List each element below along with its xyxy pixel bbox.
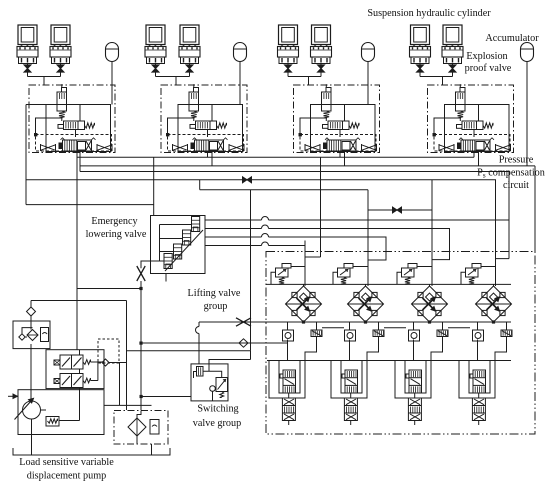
suspension valve group box 2 <box>161 85 247 153</box>
bridge check arrows <box>297 297 310 311</box>
wire <box>473 151 475 153</box>
wire <box>367 62 369 86</box>
filter diamond <box>27 330 38 341</box>
wire <box>194 372 197 379</box>
inner block 4 <box>445 105 510 152</box>
suspension cylinder 2a <box>146 25 165 45</box>
wire manifold to valve group 3 <box>288 76 321 78</box>
bridge ports <box>418 292 423 297</box>
wire emergency valve to pump line <box>141 261 160 268</box>
pump control valve 1 <box>60 355 83 369</box>
return filter bypass <box>150 420 159 435</box>
pressure compensator pilot valve <box>472 264 481 269</box>
directional valve lower <box>282 398 295 421</box>
wire manifold to valve group 1 <box>28 76 61 78</box>
check valve bridge diamond <box>476 286 512 322</box>
spool right vent 2 <box>229 144 244 151</box>
wire <box>434 118 461 135</box>
shut-off valve on outlet rail <box>236 318 251 326</box>
wire emergency pilot line W3 <box>205 229 450 260</box>
spring of proportional valve 4 <box>483 123 493 128</box>
explosion proof valve 4a <box>410 47 431 58</box>
wire emergency pilot line W4 <box>205 219 509 221</box>
check valve bridge diamond <box>348 286 384 322</box>
spring of proportional valve 2 <box>217 123 227 128</box>
pump control valve pilot tab 2 <box>54 379 60 384</box>
wire emergency pilot line W1 <box>205 245 305 247</box>
main spool dashed enclosure 1 <box>36 135 112 152</box>
wire control valve internals <box>79 350 81 421</box>
emergency cartridge valve 4 <box>164 254 172 269</box>
wire <box>300 118 327 135</box>
shut-off valve under cylinder 4a <box>417 65 424 69</box>
wire pilot riser <box>126 301 128 411</box>
wire <box>60 64 62 65</box>
explosion proof valve 1a <box>17 47 38 58</box>
main spool dashed enclosure 2 <box>168 135 244 152</box>
pilot relief valve 4 <box>456 92 466 111</box>
wire compensator pilot feed <box>481 266 496 268</box>
explosion proof valve 4b <box>442 47 463 58</box>
bridge ports <box>292 292 297 297</box>
shut-off valve under cylinder 1a <box>24 65 31 69</box>
wire box1 left port <box>26 104 46 106</box>
pilot relief valve 2 <box>189 92 199 111</box>
explosion proof valve 3a <box>278 47 299 58</box>
bridge check arrows <box>423 297 436 311</box>
wire compensator left drain <box>461 272 466 284</box>
wire switching valve feed <box>198 322 200 364</box>
wire <box>36 118 63 135</box>
suspension valve group box 4 <box>428 85 514 153</box>
wire col1 feed <box>305 157 321 286</box>
svg-text:Switching: Switching <box>197 404 238 415</box>
wire emergency pilot line W2 <box>205 237 386 260</box>
pump control valve 2 <box>60 374 83 388</box>
main spool 4 <box>461 140 490 151</box>
wire right riser to lifting box <box>534 166 536 252</box>
wire <box>75 130 77 138</box>
wire bus line L2 <box>80 165 535 167</box>
suspension cylinder 3a <box>279 25 298 45</box>
directional valve lower <box>344 398 357 421</box>
wire accumulator stem inside box <box>111 85 113 105</box>
wire box drops to bus <box>207 153 209 158</box>
emergency cartridge valve 1 <box>192 217 200 232</box>
lifting valve spool <box>283 370 296 393</box>
svg-text:Accumulator: Accumulator <box>485 33 539 44</box>
shut-off valve on pump line <box>137 266 145 281</box>
check valve on bypass <box>239 339 248 347</box>
svg-text:displacement pump: displacement pump <box>27 471 107 482</box>
spool frame <box>459 361 495 399</box>
main spool 3 <box>327 140 356 151</box>
pressure compensator pilot valve <box>408 264 417 269</box>
suspension cylinder 1a <box>18 25 37 45</box>
bridge ports <box>482 292 487 297</box>
pump control arrow <box>8 395 18 397</box>
spring of proportional valve 1 <box>85 123 95 128</box>
wire manifold to valve group 4 <box>420 76 453 78</box>
spool frame <box>395 361 431 399</box>
port valve B <box>437 330 448 337</box>
main spool dashed enclosure 3 <box>300 135 376 152</box>
spool right vent 3 <box>362 144 377 151</box>
filter unit box <box>13 321 50 349</box>
suspension cylinder 1b <box>51 25 70 45</box>
switch valve spring <box>220 392 224 398</box>
main spool 2 <box>195 140 224 151</box>
lifting valve group enclosure <box>266 252 535 435</box>
suspension cylinder 3b <box>312 25 331 45</box>
wire manifold to valve group 2 <box>156 76 190 78</box>
shut-off valve under cylinder 3a <box>285 65 292 69</box>
suspension valve group box 1 <box>29 85 115 153</box>
check valve on cross link <box>393 207 398 213</box>
filter bypass element <box>41 328 49 342</box>
wire <box>350 393 352 398</box>
accumulator 4 <box>521 43 534 62</box>
accumulator 1 <box>106 43 119 62</box>
accumulator 2 <box>234 43 247 62</box>
wire <box>339 151 341 153</box>
svg-text:Pressure: Pressure <box>499 155 534 166</box>
wire emergency internal bus <box>160 225 192 262</box>
port valve B <box>501 330 512 337</box>
compensator spring <box>341 277 346 284</box>
switching valve group box <box>191 364 228 401</box>
pressure compensator pilot valve <box>282 264 291 269</box>
wire <box>288 393 290 398</box>
wire <box>429 284 431 286</box>
pilot relief valve 3 <box>322 92 332 111</box>
wire <box>287 322 289 330</box>
wire <box>419 64 421 65</box>
main spool dashed enclosure 4 <box>434 135 510 152</box>
port valve A <box>283 330 294 341</box>
wire bus line L1 <box>77 156 474 158</box>
port valve A <box>409 330 420 341</box>
wire col4 feed <box>495 180 497 286</box>
wire <box>207 151 209 153</box>
wire compensator left drain <box>271 272 276 284</box>
wire <box>365 284 367 286</box>
wire switch drain <box>127 350 251 352</box>
pilot relief valve 1 <box>57 92 67 111</box>
shut-off valve under cylinder 3b <box>318 65 325 69</box>
wire compensator pilot feed <box>291 266 305 268</box>
wire riser L3 branch <box>496 172 510 259</box>
bridge check arrows <box>487 297 500 311</box>
wire <box>155 64 157 65</box>
directional valve lower <box>408 398 421 421</box>
port valve B <box>311 330 322 337</box>
compensator spring <box>469 277 474 284</box>
wire to pilot riser <box>109 362 127 364</box>
wire <box>168 118 195 135</box>
port valve B <box>373 330 384 337</box>
wire left vertical <box>25 105 27 205</box>
emergency cartridge valve 3 <box>174 244 182 259</box>
variable displacement pump <box>23 401 41 419</box>
switch pilot element <box>197 367 204 377</box>
bridge check arrows <box>359 297 372 311</box>
return filter diamond <box>128 418 146 436</box>
shut-off valve under cylinder 2a <box>152 65 159 69</box>
wire bus line L6 <box>26 204 154 206</box>
wire accumulator stem inside box <box>367 85 369 105</box>
filter check diamond small <box>19 334 25 340</box>
spool frame <box>269 361 305 399</box>
svg-text:Ps compensation: Ps compensation <box>477 168 545 180</box>
pump arrow <box>15 398 34 419</box>
wire <box>207 130 209 138</box>
emergency valve slope line <box>165 230 203 271</box>
compensator spring <box>405 277 410 284</box>
inner block 2 <box>178 105 243 152</box>
wire <box>526 62 528 166</box>
wire <box>320 64 322 65</box>
check valve bridge diamond <box>412 286 448 322</box>
wire pump drain to bracket <box>31 435 33 456</box>
wire pump column <box>30 301 32 402</box>
spool left vent 3 <box>305 144 320 151</box>
wire pilot drain <box>104 363 152 405</box>
wire <box>287 64 289 65</box>
inner block 1 <box>46 105 111 152</box>
emergency lowering valve box <box>151 216 206 274</box>
wire <box>239 62 241 86</box>
svg-text:proof valve: proof valve <box>465 63 512 74</box>
accumulator 3 <box>362 43 375 62</box>
return filter enclosure <box>114 411 168 445</box>
shut-off valve under cylinder 2b <box>186 65 193 69</box>
spool frame <box>331 361 367 399</box>
spring of relief valve 2 <box>191 111 197 118</box>
spool left vent 2 <box>173 144 188 151</box>
proportional valve 4 <box>462 121 483 130</box>
spring of relief valve 1 <box>59 111 65 118</box>
compensator spring <box>279 277 284 284</box>
wire emergency drain stub <box>165 274 167 282</box>
wire <box>413 322 415 330</box>
pump control valve pilot tab 1 <box>54 360 60 365</box>
wire feed to emergency valve <box>153 157 155 215</box>
emergency cartridge valve 2 <box>183 230 191 245</box>
explosion proof valve 1b <box>50 47 71 58</box>
wire <box>27 64 29 65</box>
explosion proof valve 3b <box>311 47 332 58</box>
svg-text:group: group <box>204 301 228 312</box>
svg-text:circuit: circuit <box>503 180 529 191</box>
wire pump pilot line <box>31 300 127 302</box>
port valve A <box>473 330 484 341</box>
switch pilot ball <box>210 386 216 392</box>
wire col2 feed <box>367 190 369 286</box>
pump enclosure <box>18 390 104 435</box>
pump control valve box <box>46 350 104 389</box>
wire <box>75 151 77 153</box>
wire <box>452 64 454 65</box>
wire outlet rail <box>199 321 511 323</box>
svg-text:Explosion: Explosion <box>466 51 507 62</box>
proportional valve 3 <box>328 121 349 130</box>
wire <box>477 322 479 330</box>
wire <box>303 284 305 286</box>
suspension cylinder 4b <box>443 25 462 45</box>
pressure compensator pilot valve <box>344 264 353 269</box>
pump stroke actuator <box>46 417 59 427</box>
check valve on L4 <box>243 177 248 183</box>
wire <box>349 322 351 330</box>
wire bus line L5 <box>200 189 368 191</box>
wire pump connections <box>41 409 47 411</box>
svg-text:Lifting valve: Lifting valve <box>188 288 241 299</box>
wire return line to bracket <box>151 444 153 455</box>
proportional valve 2 <box>196 121 217 130</box>
suspension cylinder 2b <box>180 25 199 45</box>
suspension cylinder 4a <box>411 25 430 45</box>
pump control valve spring 1 <box>83 360 91 365</box>
spring of proportional valve 3 <box>349 123 359 128</box>
pilot dashed enclosure <box>98 339 119 363</box>
wire <box>493 284 495 286</box>
wire <box>212 391 214 401</box>
wire long drop box1 to pump control <box>76 153 78 350</box>
spool right vent 4 <box>496 144 511 151</box>
explosion proof valve 2b <box>179 47 200 58</box>
switch valve <box>216 378 228 392</box>
wire <box>137 411 141 419</box>
directional valve lower <box>472 398 485 421</box>
inner block 3 <box>311 105 376 152</box>
svg-text:Load sensitive variable: Load sensitive variable <box>19 457 114 468</box>
wire bus line L3 <box>80 171 509 173</box>
wire <box>478 393 480 398</box>
wire <box>111 62 113 86</box>
pump control valve spring 2 <box>83 378 91 383</box>
wire switch drain line <box>141 396 191 398</box>
wire accumulator stem inside box <box>239 85 241 105</box>
wire compensator pilot feed <box>417 266 432 268</box>
wire spool rail <box>267 360 511 362</box>
shut-off valve under cylinder 1b <box>57 65 64 69</box>
wire <box>414 393 416 398</box>
wire pilot rail <box>266 283 511 285</box>
wire pump load-sensing line <box>77 288 141 290</box>
wire compensator pilot feed <box>353 266 368 268</box>
svg-text:Emergency: Emergency <box>91 216 138 227</box>
wire pump line down <box>140 281 142 410</box>
spool left vent 4 <box>439 144 454 151</box>
svg-text:valve group: valve group <box>193 418 241 429</box>
port valve A <box>345 330 356 341</box>
spring of relief valve 4 <box>458 111 464 118</box>
wire bypass with check valve <box>141 342 287 344</box>
pump group bracket <box>13 448 170 455</box>
check valve at control outlet <box>102 359 109 366</box>
bridge ports <box>354 292 359 297</box>
wire bus line L4 <box>26 179 496 181</box>
shut-off valve under cylinder 4b <box>449 65 456 69</box>
wire compensator left drain <box>397 272 402 284</box>
check valve above filter <box>27 307 36 316</box>
lifting valve spool <box>473 370 486 393</box>
svg-text:lowering valve: lowering valve <box>86 229 147 240</box>
main spool 1 <box>63 140 92 151</box>
suspension valve group box 3 <box>294 85 380 153</box>
lifting valve spool <box>409 370 422 393</box>
wire cross link with check valve <box>368 209 432 211</box>
wire <box>339 130 341 138</box>
wire <box>473 130 475 138</box>
wire <box>189 64 191 65</box>
lifting valve spool <box>345 370 358 393</box>
spool right vent 1 <box>97 144 112 151</box>
proportional valve 1 <box>64 121 85 130</box>
svg-text:Suspension hydraulic cylinder: Suspension hydraulic cylinder <box>367 8 491 19</box>
wire compensator left drain <box>333 272 338 284</box>
spring of relief valve 3 <box>324 111 330 118</box>
wire filter bypass loop <box>22 328 33 349</box>
spool left vent 1 <box>41 144 56 151</box>
wire col3 feed <box>431 180 433 286</box>
wire drop from L5 <box>250 190 252 351</box>
check valve bridge diamond <box>286 286 322 322</box>
wire switch second feed <box>209 351 251 372</box>
explosion proof valve 2a <box>145 47 166 58</box>
